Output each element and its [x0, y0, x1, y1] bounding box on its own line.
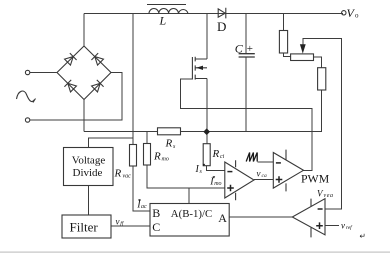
op-amp U3 power ticks [310, 199, 312, 238]
svg-text:ca: ca [262, 173, 267, 179]
wire Rmo bottom to plus input [147, 165, 225, 188]
svg-text:ac: ac [141, 204, 147, 210]
diode D [218, 8, 226, 19]
wire capacitor top [245, 14, 247, 54]
box multiplier A(B-1)/C [150, 204, 229, 237]
wire return line left of Rs [84, 131, 158, 133]
wire return line Rs to divider corner [181, 90, 322, 132]
svg-text:v: v [116, 217, 120, 227]
wire pot wiper to error amp minus [303, 39, 342, 209]
sawtooth ramp icon [246, 153, 257, 162]
op-amp U3 plus sign [316, 222, 323, 229]
wire vff filter to multiplier C input [111, 225, 150, 227]
transistor Q1 mosfet [192, 57, 207, 80]
wire divider top resistor [283, 14, 285, 31]
op-amp U2 minus sign [276, 162, 281, 164]
resistor divider bottom [318, 68, 326, 90]
svg-text:C: C [152, 220, 160, 234]
inductor L coil [149, 8, 188, 13]
inductor L core bar [147, 4, 186, 6]
wire bridge bottom to return line [83, 100, 85, 132]
op-amp U1 minus sign [227, 171, 232, 173]
wire multiplier output pin to plus line [188, 188, 190, 204]
resistor Rmo [144, 144, 151, 166]
potentiometer wiper arrow [300, 44, 306, 53]
wire mosfet drain [206, 14, 208, 60]
op-amp U3 minus sign [318, 208, 323, 210]
wire error amp plus to vref [325, 225, 339, 227]
wire error amp output to multiplier A [229, 216, 292, 218]
svg-text:D: D [217, 19, 226, 34]
node AC terminal bottom [25, 118, 29, 122]
wire sense line from rail to Rvac [132, 14, 134, 145]
svg-text:A: A [218, 211, 227, 225]
svg-text:v: v [341, 221, 345, 231]
wire divider resistor to pot [284, 53, 291, 56]
wire mosfet gate drive [181, 79, 312, 170]
diode D2 top-right [91, 53, 103, 65]
svg-text:o: o [355, 12, 359, 20]
wire inductor to diode [188, 13, 218, 15]
svg-text:s: s [173, 144, 176, 150]
bottom scan edge line [0, 252, 390, 253]
svg-text:ref: ref [346, 224, 353, 231]
svg-text:L: L [159, 14, 167, 28]
wire bridge left to AC terminal [30, 72, 57, 74]
box voltage divider [64, 148, 114, 186]
svg-text:R: R [212, 148, 220, 160]
svg-text:↵: ↵ [360, 232, 366, 241]
resistor Rs [158, 128, 181, 135]
svg-text:+: + [247, 43, 253, 55]
svg-text:R: R [114, 168, 122, 180]
diode D1 top-left [64, 53, 76, 65]
AC source sine [17, 91, 36, 102]
wire mosfet source to junction [206, 79, 208, 144]
wire sawtooth to PWM minus [258, 161, 274, 163]
junction node dot [203, 128, 210, 135]
node Vo output terminal [342, 11, 346, 15]
svg-text:B: B [152, 206, 160, 220]
svg-text:vea: vea [324, 193, 334, 199]
op-amp U3 voltage error amp [292, 199, 325, 235]
wire voltage divide to filter [88, 186, 90, 216]
transistor Q1 arrow [196, 66, 203, 70]
svg-text:v: v [257, 169, 261, 179]
arrow current Is [203, 164, 206, 167]
svg-text:Filter: Filter [70, 220, 99, 235]
wire pot right to lower resistor [314, 57, 322, 68]
svg-text:mo: mo [162, 157, 169, 163]
svg-text:PWM: PWM [301, 172, 330, 186]
wire current amp output vca to PWM plus [254, 179, 273, 181]
arrow current Iac [138, 199, 141, 202]
op-amp U1 current amplifier [225, 162, 254, 198]
op-amp U1 power ticks [235, 160, 237, 200]
node AC terminal top [25, 70, 29, 74]
potentiometer body [291, 54, 314, 61]
resistor divider top [279, 31, 287, 54]
bridge rectifier diamond [57, 46, 111, 100]
wire capacitor bottom to return [245, 57, 247, 132]
wire voltage divide tap [89, 138, 134, 148]
op-amp U2 power ticks [285, 150, 287, 192]
diode D3 bottom-left [64, 80, 76, 92]
svg-text:A(B-1)/C: A(B-1)/C [171, 208, 212, 220]
resistor Rci [203, 144, 210, 166]
wire AC bottom terminal to bridge right corner [30, 73, 122, 121]
op-amp U2 plus sign [276, 176, 283, 183]
svg-text:C: C [235, 42, 244, 56]
op-amp U1 plus sign [227, 185, 234, 192]
resistor Rvac [130, 145, 137, 167]
svg-text:vac: vac [123, 174, 132, 180]
capacitor C plates [239, 54, 255, 57]
wire Rci bottom to minus input [207, 166, 225, 171]
wire inductor left [84, 13, 149, 15]
svg-text:s: s [200, 169, 203, 175]
wire Rvac bottom to multiplier B input [133, 166, 150, 211]
svg-text:R: R [153, 151, 161, 163]
svg-text:ci: ci [220, 154, 225, 160]
svg-text:Divide: Divide [73, 167, 103, 179]
box filter [62, 215, 111, 238]
wire Rmo top [146, 132, 148, 144]
svg-text:R: R [165, 138, 173, 150]
arrow current Imo [213, 176, 216, 179]
wire bridge top to rail [83, 14, 85, 47]
svg-text:mo: mo [214, 181, 221, 187]
op-amp U2 PWM comparator [273, 153, 303, 189]
svg-text:Voltage: Voltage [72, 155, 106, 167]
wire top rail [84, 13, 343, 15]
diode D4 bottom-right [91, 80, 103, 92]
